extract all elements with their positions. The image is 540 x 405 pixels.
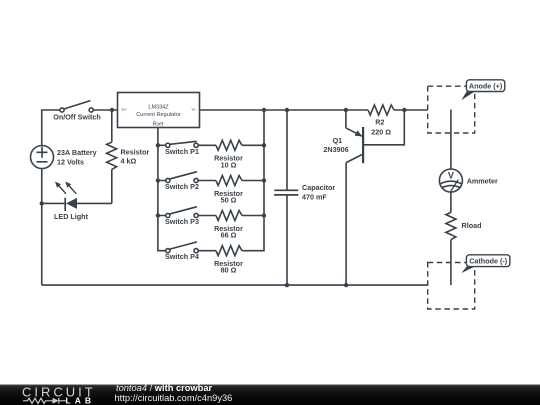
CircuitLab footer bar bbox=[0, 383, 540, 405]
wire Rset down the switch bank left rail bbox=[158, 128, 166, 251]
wire Q1 base to R2 right node bbox=[363, 110, 404, 145]
wire R2 right to anode box bbox=[394, 109, 428, 111]
capacitor top lead bbox=[286, 110, 288, 190]
wire switch bank right rail bbox=[242, 110, 264, 251]
svg-text:Rload: Rload bbox=[462, 221, 482, 230]
switch P3 bbox=[158, 207, 216, 218]
junction bottom rail / capacitor bbox=[285, 283, 289, 287]
wire Rload to cathode box bbox=[450, 240, 452, 286]
resistor 10 Ohm bbox=[216, 140, 242, 150]
battery V1 23A 12V bbox=[31, 146, 54, 169]
svg-text:50 Ω: 50 Ω bbox=[221, 196, 237, 205]
wire resistor 4k top lead bbox=[111, 110, 113, 142]
resistor Rload bbox=[446, 212, 456, 239]
junction right rail / resistor 66 bbox=[262, 213, 266, 217]
switch SW1 On/Off Switch bbox=[60, 101, 93, 113]
svg-text:Capacitor: Capacitor bbox=[302, 183, 335, 192]
svg-text:66 Ω: 66 Ω bbox=[221, 231, 237, 240]
svg-text:Switch P2: Switch P2 bbox=[165, 182, 199, 191]
resistor 66 Ohm bbox=[216, 211, 242, 221]
capacitor C1 470 mF bbox=[274, 190, 298, 195]
wire ammeter top lead from anode box bbox=[450, 110, 452, 170]
svg-text:V-: V- bbox=[191, 107, 196, 113]
junction Rset rail / switch P1 bbox=[156, 143, 160, 147]
svg-text:80 Ω: 80 Ω bbox=[221, 266, 237, 275]
svg-text:4 kΩ: 4 kΩ bbox=[121, 157, 137, 166]
junction top rail / switch-bank right rail bbox=[262, 108, 266, 112]
terminal box cathode (dashed) bbox=[428, 263, 475, 310]
junction top rail / capacitor bbox=[285, 108, 289, 112]
junction Rset rail / switch P2 bbox=[156, 178, 160, 182]
resistor R2 220 Ohm bbox=[368, 105, 394, 115]
svg-text:Ammeter: Ammeter bbox=[467, 177, 498, 186]
capacitor bottom lead bbox=[286, 195, 288, 285]
switch P2 bbox=[158, 172, 216, 183]
callout Anode (+) bbox=[461, 80, 505, 100]
svg-text:Resistor: Resistor bbox=[121, 148, 150, 157]
junction right rail / resistor 50 bbox=[262, 178, 266, 182]
junction right rail / resistor 10 bbox=[262, 143, 266, 147]
svg-text:tontoa4 / with crowbar: tontoa4 / with crowbar bbox=[116, 383, 213, 393]
junction top rail / R2 right / Q1 base bbox=[402, 108, 406, 112]
callout Cathode (-) bbox=[461, 255, 510, 273]
svg-text:470 mF: 470 mF bbox=[302, 192, 327, 201]
switch P1 bbox=[158, 141, 216, 147]
resistor 50 Ohm bbox=[216, 176, 242, 186]
svg-text:V: V bbox=[448, 171, 454, 181]
wire ammeter to Rload bbox=[450, 192, 452, 212]
svg-text:LAB: LAB bbox=[66, 395, 95, 405]
svg-text:Switch P3: Switch P3 bbox=[165, 217, 199, 226]
svg-text:Switch P4: Switch P4 bbox=[165, 252, 199, 261]
ammeter M1 bbox=[439, 169, 462, 192]
svg-text:Current Regulator: Current Regulator bbox=[136, 112, 181, 118]
resistor 80 Ohm bbox=[216, 246, 242, 256]
svg-text:23A Battery: 23A Battery bbox=[57, 148, 97, 157]
wire switch to regulator V+ bbox=[93, 109, 117, 111]
svg-text:Switch P1: Switch P1 bbox=[165, 147, 199, 156]
regulator U1 LM334Z body bbox=[118, 93, 200, 128]
terminal box anode (dashed) bbox=[428, 86, 475, 133]
wire battery bottom to bottom rail bbox=[41, 169, 43, 286]
svg-text:On/Off Switch: On/Off Switch bbox=[53, 113, 101, 122]
bottom rail bbox=[42, 284, 428, 286]
svg-text:LED Light: LED Light bbox=[54, 212, 89, 221]
wire Q1 emitter lead bbox=[345, 110, 347, 128]
svg-text:Cathode (-): Cathode (-) bbox=[469, 256, 508, 265]
LED D1 bbox=[55, 182, 77, 212]
wire battery top to switch bbox=[42, 110, 60, 146]
svg-text:12 Volts: 12 Volts bbox=[57, 157, 84, 166]
svg-text:Q1: Q1 bbox=[333, 136, 343, 145]
svg-text:220 Ω: 220 Ω bbox=[371, 127, 391, 136]
wire LED left bbox=[42, 202, 65, 204]
transistor Q1 2N3906 bbox=[346, 127, 363, 163]
wire Q1 collector down to bottom rail bbox=[345, 163, 347, 286]
svg-text:LM334Z: LM334Z bbox=[148, 104, 169, 110]
junction Rset rail / switch P3 bbox=[156, 213, 160, 217]
wire resistor 4k bottom lead bbox=[111, 169, 113, 203]
junction V+ node at regulator input bbox=[110, 108, 114, 112]
svg-text:Anode (+): Anode (+) bbox=[469, 81, 503, 90]
wire LED right to resistor leg bbox=[77, 202, 112, 204]
junction bottom rail / Q1 collector bbox=[344, 283, 348, 287]
wire V- to anode terminal box bbox=[200, 109, 369, 111]
svg-text:10 Ω: 10 Ω bbox=[221, 160, 237, 169]
junction top rail / Q1 emitter bbox=[344, 108, 348, 112]
svg-text:http://circuitlab.com/c4n9y36: http://circuitlab.com/c4n9y36 bbox=[115, 393, 233, 403]
svg-text:2N3906: 2N3906 bbox=[323, 145, 348, 154]
svg-text:R2: R2 bbox=[375, 117, 384, 126]
switch P4 bbox=[166, 242, 216, 253]
svg-text:V+: V+ bbox=[121, 107, 127, 113]
junction left rail / LED bbox=[40, 201, 44, 205]
svg-text:Rset: Rset bbox=[153, 122, 164, 128]
resistor R1 4 kOhm zigzag bbox=[107, 142, 117, 169]
